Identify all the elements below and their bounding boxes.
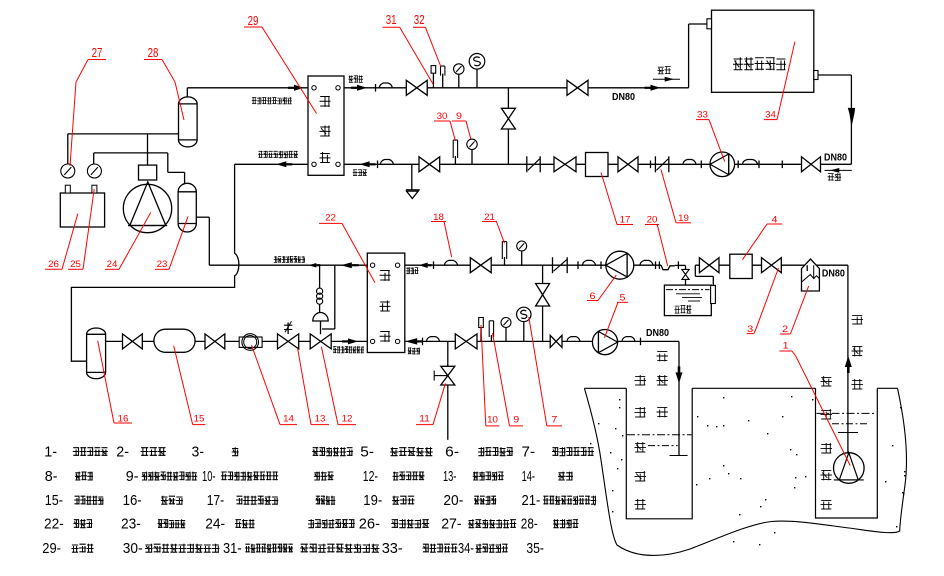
small arrow suction west	[308, 263, 316, 268]
svg-text:22: 22	[325, 212, 336, 223]
storage tank label	[674, 305, 691, 313]
check valve return	[654, 156, 656, 172]
svg-text:34-: 34-	[458, 540, 474, 557]
svg-text:25: 25	[70, 259, 81, 270]
label hot water return small	[353, 169, 367, 176]
svg-text:33-: 33-	[382, 540, 403, 557]
svg-text:DN80: DN80	[612, 92, 635, 103]
svg-text:32: 32	[414, 12, 425, 27]
arrow down into return well	[676, 372, 683, 383]
svg-text:20-: 20-	[443, 492, 463, 509]
svg-text:10: 10	[487, 415, 498, 426]
pi thermometer 30	[454, 156, 456, 164]
svg-text:10-: 10-	[202, 468, 216, 485]
label refrigerant gas in	[252, 97, 292, 104]
label hot water out small	[349, 75, 364, 82]
wire well supply line to storage tank	[695, 264, 848, 266]
svg-text:35-: 35-	[526, 540, 544, 557]
valve supply 1	[406, 80, 427, 95]
circulating pump 33	[710, 152, 735, 177]
gauge 9 on return	[471, 149, 473, 164]
wire return drop into return well	[678, 341, 680, 455]
svg-text:15: 15	[194, 413, 205, 424]
valve return west	[554, 157, 576, 172]
svg-text:7-: 7-	[522, 444, 536, 461]
wire compressor discharge riser	[147, 134, 149, 165]
svg-text:6-: 6-	[445, 444, 459, 461]
arrow hot water return into condenser	[360, 161, 370, 167]
svg-text:9: 9	[513, 415, 519, 426]
wire bypass evaporator side	[542, 265, 544, 341]
valve after processor	[762, 258, 782, 273]
arrow liquid into evaporator	[348, 338, 358, 344]
control box 26	[60, 193, 104, 227]
svg-text:12-: 12-	[363, 468, 378, 485]
svg-text:28: 28	[148, 45, 159, 60]
svg-text:29: 29	[248, 13, 259, 28]
svg-text:24-: 24-	[205, 516, 225, 533]
wire liquid line receiver to evaporator	[106, 340, 373, 342]
label cold water return column B	[657, 351, 669, 417]
evaporator ports	[370, 263, 374, 267]
label cold water return small	[408, 348, 420, 355]
tick before check	[650, 161, 652, 169]
flex connector 18	[445, 260, 458, 264]
valve supply 2	[567, 80, 588, 95]
tick and flex near condenser	[377, 161, 379, 169]
flange tick	[375, 84, 377, 92]
gauge on chilled return	[505, 328, 507, 342]
wire chilled water return (evap bottom right)	[398, 340, 679, 342]
svg-text:8-: 8-	[45, 468, 58, 485]
receiver 16	[87, 328, 106, 379]
evaporator text	[380, 270, 391, 342]
thermometer 31	[432, 73, 434, 88]
pi thermometer 21	[504, 257, 506, 265]
label outlet well column C	[821, 376, 833, 509]
svg-text:26: 26	[48, 259, 59, 270]
label cold water return column A	[635, 375, 647, 509]
wire bypass condenser side	[507, 88, 509, 165]
arrow up on riser	[845, 356, 852, 367]
oil separator 28	[179, 97, 198, 147]
valve return near HX	[802, 157, 821, 172]
flex after pump6	[640, 260, 653, 264]
wire TXV external equalizer	[334, 265, 336, 329]
svg-text:19: 19	[678, 213, 689, 224]
flex connector	[427, 337, 440, 341]
flex connector return west	[683, 160, 696, 164]
condenser text	[320, 96, 331, 163]
bypass valve vertical	[501, 108, 515, 129]
wire oil separator to condenser (hot gas)	[186, 88, 188, 98]
label refrigerant liquid out	[258, 151, 298, 158]
ground soil dots	[791, 396, 792, 397]
wire pipe dip at union 20	[661, 265, 675, 270]
svg-text:12: 12	[342, 413, 353, 424]
label cold water in small	[406, 267, 419, 274]
svg-text:13-: 13-	[443, 468, 456, 485]
tick at tank stub	[677, 261, 679, 269]
svg-text:9-: 9-	[126, 468, 139, 485]
drain valve 11 with handle	[441, 366, 455, 385]
svg-text:DN80: DN80	[646, 328, 669, 339]
wire condenser drain stub	[411, 164, 413, 190]
HX label text	[733, 57, 786, 70]
valve after receiver	[123, 334, 143, 349]
label refrigerant gas out	[274, 256, 305, 263]
wire condenser to household HX supply	[338, 87, 689, 89]
svg-text:1-: 1-	[44, 444, 57, 461]
wire HX return down to hot water return main	[818, 74, 852, 76]
thermal expansion valve 12	[310, 334, 331, 349]
svg-text:31-: 31-	[223, 540, 242, 557]
gas-liquid separator 23	[178, 183, 196, 232]
evaporator 22 box	[367, 253, 405, 352]
arrow into evap top right	[419, 262, 428, 268]
svg-text:5-: 5-	[360, 444, 374, 461]
svg-text:7: 7	[551, 415, 557, 426]
arrow hot water out of condenser	[357, 85, 367, 91]
thermometer 10	[480, 328, 482, 342]
svg-text:17: 17	[620, 215, 631, 226]
wire condenser liquid line with crossing hop	[235, 163, 314, 165]
LP gauge 25	[92, 185, 97, 193]
wire storage tank suction elbow	[694, 265, 696, 276]
compressor 24	[139, 165, 157, 180]
arrow hot gas into condenser	[294, 85, 304, 91]
outlet well walls	[816, 388, 878, 518]
flow direction label hot water return	[825, 169, 852, 171]
wire evaporator suction main	[209, 264, 372, 266]
arrow down from HX	[848, 108, 855, 127]
cold water return pump 5	[592, 330, 617, 355]
return well walls	[626, 388, 692, 519]
valve after drier	[205, 334, 225, 349]
thermometer 32	[442, 74, 444, 88]
flex connector	[379, 83, 392, 87]
svg-text:16-: 16-	[123, 492, 142, 509]
storage tank water line	[666, 289, 710, 291]
svg-text:31: 31	[386, 12, 397, 27]
gauge on chilled out	[521, 251, 523, 266]
valve chilled return	[455, 334, 477, 349]
wire gauge 27 stub	[67, 134, 69, 165]
wire chilled water out (evap top right)	[398, 264, 661, 266]
return pipe outlet bar	[670, 455, 688, 457]
arrow supply east	[651, 85, 661, 91]
condenser ports	[312, 86, 316, 90]
flow direction label hot water supply	[658, 66, 672, 74]
svg-text:14: 14	[283, 413, 294, 424]
svg-text:DN80: DN80	[822, 268, 845, 279]
filter drier 15	[154, 329, 195, 352]
HX left port	[707, 19, 712, 29]
flex before pump5	[567, 337, 580, 341]
arrow into evap bottom right	[405, 338, 417, 345]
valve tank suction	[699, 258, 719, 273]
tick 18a	[433, 261, 435, 269]
svg-text:20: 20	[647, 215, 658, 226]
HX right port	[814, 71, 818, 80]
svg-text:11: 11	[419, 413, 430, 424]
svg-text:27: 27	[92, 45, 103, 60]
svg-text:21-: 21-	[522, 492, 541, 509]
wire evap drain stub	[447, 341, 449, 439]
label cold water out column D	[852, 315, 864, 389]
wire well riser from submersible pump	[847, 265, 849, 453]
svg-text:1: 1	[783, 341, 789, 352]
wire suction-gauge bus	[94, 152, 168, 154]
svg-text:23: 23	[157, 259, 168, 270]
small valve before pump5	[550, 335, 562, 347]
solenoid valve 13	[278, 334, 299, 349]
svg-text:14-: 14-	[522, 468, 535, 485]
svg-text:15-: 15-	[45, 492, 63, 509]
check valve west of bypass	[526, 156, 528, 172]
svg-text:2-: 2-	[116, 444, 129, 461]
storage tank side connection	[711, 285, 716, 303]
ticks and flex before pump6	[577, 261, 579, 269]
condenser 29 box	[308, 76, 344, 175]
pi thermometer 9b	[490, 335, 492, 341]
pressure gauge on supply	[458, 74, 460, 88]
svg-text:34: 34	[765, 109, 776, 120]
svg-text:DN80: DN80	[824, 153, 847, 164]
svg-text:19-: 19-	[363, 492, 382, 509]
wire hot water return main	[338, 163, 851, 165]
condenser drain funnel	[406, 189, 420, 191]
submersible pump 1	[834, 453, 865, 484]
valve return mid	[618, 157, 638, 172]
svg-text:28-: 28-	[521, 516, 538, 533]
wire discharge-gauge bus	[68, 133, 179, 135]
tick after arrow	[422, 338, 424, 346]
svg-text:27-: 27-	[441, 516, 461, 533]
svg-text:2: 2	[782, 324, 788, 335]
hot water flow switch box 17	[586, 153, 609, 177]
arrow liquid out of condenser	[276, 161, 286, 167]
outlet well water level	[817, 412, 877, 414]
cold water outlet pump 6	[606, 251, 634, 279]
flex after pump5	[622, 337, 635, 341]
svg-text:13: 13	[315, 413, 326, 424]
svg-text:29-: 29-	[42, 540, 61, 557]
ground outline	[584, 388, 906, 555]
wire gauge 25 stub	[93, 153, 95, 165]
return well water level	[627, 434, 692, 436]
float/fill valve at tank	[682, 269, 689, 271]
flex connector return east	[743, 160, 758, 164]
flow switch S on supply	[476, 69, 478, 88]
svg-text:33: 33	[697, 109, 708, 120]
wire TXV bulb capillary branch	[319, 265, 321, 288]
wire storage tank filler drop	[685, 265, 687, 269]
svg-text:22-: 22-	[44, 516, 64, 533]
flange ticks return	[781, 161, 783, 169]
svg-text:17-: 17-	[207, 492, 225, 509]
svg-text:26-: 26-	[359, 516, 380, 533]
svg-text:24: 24	[107, 259, 118, 270]
label refrigerant liquid in	[333, 346, 364, 353]
flow switch 7	[523, 322, 525, 342]
sand remover 2	[802, 259, 820, 291]
svg-text:23-: 23-	[121, 516, 141, 533]
sight glass 14	[239, 337, 262, 347]
wire suction line from evaporator to separator	[196, 216, 209, 218]
valve chilled out	[470, 258, 491, 273]
check valve 19 on chilled out	[552, 257, 554, 273]
svg-text:3-: 3-	[192, 444, 205, 461]
electronic water processor 4	[730, 254, 752, 278]
bypass valve vertical 2	[536, 284, 550, 307]
svg-text:30-: 30-	[123, 540, 143, 557]
household heat exchanger 34 box	[712, 10, 814, 92]
valve near condenser return	[419, 157, 440, 172]
arrow suction west big	[341, 262, 352, 268]
storage tank	[664, 285, 711, 316]
HP gauge 27	[65, 185, 70, 193]
